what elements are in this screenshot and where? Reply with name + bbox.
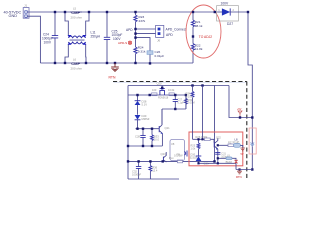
- wire right inner vertical: [229, 86, 252, 118]
- svg-text:200 ohm: 200 ohm: [71, 15, 83, 19]
- svg-text:D27: D27: [227, 22, 233, 26]
- connector J1: [23, 4, 29, 19]
- resistor R26 inline: [196, 135, 211, 141]
- annotation APD-SET red: [118, 41, 132, 45]
- wire bottom rail: [128, 160, 215, 162]
- svg-text:APD: APD: [166, 33, 173, 37]
- wire gnd down: [27, 16, 40, 63]
- svg-text:5V: 5V: [241, 153, 244, 156]
- svg-text:J6: J6: [157, 39, 161, 43]
- resistor R36: [149, 161, 158, 179]
- capacitor C32: [132, 161, 141, 179]
- dashed boundary box: [114, 82, 247, 84]
- svg-text:0.01µF: 0.01µF: [155, 54, 165, 58]
- power flag red small: [237, 108, 242, 117]
- zener D28: [135, 95, 148, 115]
- svg-text:Q20: Q20: [157, 82, 162, 86]
- wire mid rail: [128, 145, 162, 147]
- resistor R23: [134, 12, 146, 29]
- svg-text:41.8k: 41.8k: [195, 47, 203, 51]
- annotation red ellipse: [186, 5, 221, 58]
- svg-text:1000pF: 1000pF: [132, 172, 141, 176]
- svg-text:APD: APD: [126, 28, 133, 32]
- svg-text:APD-S: APD-S: [118, 41, 127, 45]
- svg-text:5.1V: 5.1V: [142, 103, 148, 107]
- svg-text:10 µH: 10 µH: [233, 141, 240, 144]
- ground RTN lower right: [236, 170, 242, 179]
- svg-text:J1: J1: [24, 4, 28, 8]
- svg-text:GND: GND: [9, 14, 18, 18]
- wire bottom return rail: [128, 178, 179, 180]
- resistor R21: [191, 12, 202, 37]
- svg-text:Q23: Q23: [161, 152, 167, 156]
- wire J6 pin2: [136, 29, 157, 47]
- wire output vertical: [251, 118, 253, 170]
- zener D30: [190, 153, 210, 165]
- capacitor C27: [173, 95, 185, 109]
- svg-text:12.4: 12.4: [152, 168, 158, 172]
- svg-text:TO ADJ2: TO ADJ2: [199, 35, 212, 39]
- svg-text:0.1µF: 0.1µF: [177, 101, 184, 104]
- svg-text:RTN: RTN: [236, 175, 242, 179]
- wire lower supply rail: [128, 94, 186, 96]
- wire C26 tap: [136, 38, 151, 51]
- resistor R30 inline: [152, 88, 158, 96]
- svg-text:1.0k: 1.0k: [191, 148, 196, 151]
- wire APD net to J6 pin1: [136, 28, 157, 30]
- wire gate net: [162, 95, 186, 125]
- resistor R31 inline: [168, 88, 175, 96]
- wire lower left vertical: [127, 86, 129, 180]
- svg-text:1.00M: 1.00M: [188, 102, 195, 105]
- wire reg top net: [193, 139, 215, 142]
- wire base net: [136, 128, 160, 130]
- svg-text:20.0: 20.0: [154, 137, 160, 141]
- capacitor C24: [42, 12, 58, 63]
- transistor Q23: [161, 152, 167, 162]
- wire top rail: [27, 11, 218, 13]
- svg-text:L6: L6: [73, 57, 77, 61]
- wire reg output net: [199, 145, 237, 163]
- svg-text:100V: 100V: [221, 1, 230, 5]
- resistor R35 inline: [169, 153, 183, 162]
- svg-text:10.0k: 10.0k: [168, 88, 175, 92]
- common-mode choke L11: [65, 12, 101, 63]
- transistor Q21 npn: [159, 109, 170, 146]
- svg-text:MMSZ: MMSZ: [142, 117, 150, 121]
- svg-text:BEAD: BEAD: [226, 161, 233, 164]
- zener D29: [135, 114, 150, 129]
- resistor R27: [228, 141, 234, 146]
- resistor R22: [191, 37, 202, 64]
- capacitor C26: [147, 50, 164, 63]
- module U8: [170, 140, 187, 161]
- svg-text:U8: U8: [171, 142, 175, 146]
- inductor L8: [233, 137, 243, 147]
- transistor Q22: [214, 136, 221, 149]
- junction dots top section: [54, 11, 249, 65]
- svg-text:0.5/1W: 0.5/1W: [174, 153, 183, 157]
- svg-text:L5: L5: [73, 6, 77, 10]
- capacitor C31: [215, 152, 227, 158]
- svg-text:237k: 237k: [139, 19, 146, 23]
- wire reg input verticals: [193, 86, 203, 140]
- transistor Q20 pmos: [157, 82, 169, 100]
- resistor R24: [134, 46, 146, 63]
- svg-text:200 ohm: 200 ohm: [71, 66, 83, 70]
- svg-text:Q22: Q22: [216, 136, 221, 139]
- svg-text:2: 2: [233, 8, 235, 12]
- resistor R32: [184, 95, 194, 109]
- wire right vertical from D27: [248, 12, 252, 118]
- ground RTN upper: [109, 63, 119, 80]
- diode D27: [217, 1, 248, 26]
- svg-text:+5V: +5V: [237, 108, 242, 111]
- junction dots reg: [197, 138, 219, 164]
- svg-text:98.1k: 98.1k: [195, 24, 203, 28]
- annotation red rect right: [249, 128, 256, 154]
- svg-text:RTN: RTN: [109, 76, 116, 80]
- svg-text:1: 1: [218, 8, 220, 12]
- resistor R25: [191, 139, 200, 156]
- svg-text:100: 100: [152, 88, 157, 92]
- dnp mark red inner: [234, 160, 237, 164]
- wire lower top net: [128, 85, 229, 87]
- svg-text:C28: C28: [135, 134, 140, 138]
- ferrite bead L9: [226, 154, 233, 163]
- capacitor C28: [135, 129, 146, 146]
- svg-text:250µH: 250µH: [91, 34, 101, 38]
- wire mid vertical: [214, 86, 216, 162]
- svg-text:9.31k: 9.31k: [138, 49, 146, 53]
- svg-text:FDN5618: FDN5618: [158, 97, 169, 100]
- connector flag output: [251, 142, 255, 146]
- svg-text:APD_Connect: APD_Connect: [166, 27, 187, 31]
- ferrite bead L6: [71, 57, 83, 70]
- resistor R33: [151, 129, 160, 146]
- svg-text:100V: 100V: [44, 40, 52, 44]
- capacitor C25: [104, 12, 123, 63]
- svg-text:3.01k: 3.01k: [186, 94, 193, 98]
- ferrite bead L5: [70, 6, 83, 19]
- junction dots lower: [127, 84, 254, 170]
- resistor R34: [186, 91, 194, 98]
- connector J6: [156, 25, 164, 42]
- svg-text:5231B: 5231B: [190, 157, 198, 160]
- svg-text:Q21: Q21: [165, 126, 171, 130]
- wire bottom rail: [40, 62, 193, 64]
- ground flag inner right: [240, 148, 245, 156]
- red box region: [189, 132, 243, 166]
- wire output bottom: [236, 163, 252, 169]
